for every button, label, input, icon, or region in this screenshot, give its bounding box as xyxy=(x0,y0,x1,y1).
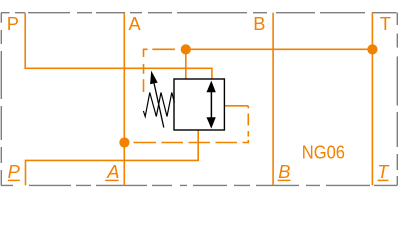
svg-text:A: A xyxy=(129,13,142,34)
svg-text:A: A xyxy=(106,161,119,182)
svg-text:T: T xyxy=(377,161,390,182)
spring (zigzag) xyxy=(143,93,174,117)
underline A bottom xyxy=(105,179,118,181)
wire P top vertical + horizontal to valve xyxy=(25,13,212,80)
dashed plate top edge xyxy=(133,49,248,142)
valve body square xyxy=(174,79,224,130)
wire valve right side xyxy=(225,105,249,107)
node junction dot (A line / pilot) xyxy=(119,137,129,147)
plate outline right edge xyxy=(396,13,398,186)
svg-text:B: B xyxy=(253,13,265,34)
adjustment arrow through spring xyxy=(150,71,164,128)
underline B bottom xyxy=(278,179,291,181)
underline P bottom xyxy=(8,179,20,181)
wire B line (straight through) xyxy=(272,13,274,186)
dashed plate left edge xyxy=(143,64,145,74)
svg-text:NG06: NG06 xyxy=(302,141,345,162)
dashed plate right edge xyxy=(247,106,249,109)
dashed plate bottom edge xyxy=(133,142,156,144)
wire T line (straight through) xyxy=(371,13,373,186)
valve flow arrow (double headed) xyxy=(207,81,216,129)
svg-text:P: P xyxy=(7,13,19,34)
node junction dot (tank line / T) xyxy=(367,44,377,54)
svg-text:B: B xyxy=(278,161,290,182)
plate outline (gray dashed border) top edge xyxy=(1,13,397,186)
wire valve bottom to bottom P port xyxy=(26,130,199,186)
plate outline bottom edge xyxy=(1,184,397,186)
svg-text:T: T xyxy=(380,13,391,34)
svg-text:P: P xyxy=(8,161,21,182)
wire A line (straight through) xyxy=(123,13,125,186)
wire node to valve top xyxy=(185,49,187,79)
plate outline left edge xyxy=(0,13,2,186)
wire tank line from node to T xyxy=(186,48,373,50)
underline T bottom xyxy=(378,179,389,181)
node junction dot (valve outlet / tank line) xyxy=(181,44,191,54)
